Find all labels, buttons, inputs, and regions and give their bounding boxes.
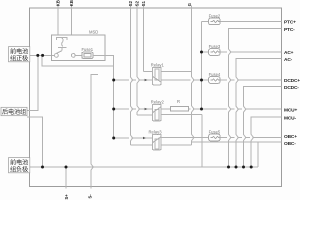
label: front battery pack positive: [9, 47, 30, 63]
svg-text:Relay3: Relay3: [149, 129, 163, 134]
enclosure box (BDU outline): [30, 8, 282, 186]
wire: relay2 aux rail y114.5: [137, 114, 152, 116]
label: front battery pack negative: [9, 158, 30, 174]
wire: sense tap at y66: [42, 55, 114, 66]
svg-text:前电池: 前电池: [10, 47, 28, 55]
node G line joining relay1 output drop: [191, 6, 193, 146]
fuse F2: [209, 18, 220, 25]
node K1 stub (top-left signal line 1): [57, 6, 59, 35]
wire: DCDC+ output after Fuse4: [220, 79, 282, 81]
wire: relay1 top rail from S1 line: [144, 71, 153, 73]
wire: OBC- riser and out: [192, 142, 282, 167]
MSD terminal circle left: [55, 54, 59, 58]
svg-text:Fuse2: Fuse2: [209, 14, 221, 19]
wire: positive distribution bus x201.5: [201, 21, 203, 109]
wire: DCDC- riser and out: [244, 87, 282, 167]
wire: bottom negative bus: [30, 166, 258, 168]
svg-text:DCDC+: DCDC+: [284, 78, 300, 84]
wire: resistor to bus and MCU+ out: [188, 108, 281, 110]
wire: precharge aux drop to bottom bus: [201, 115, 203, 168]
relay Relay2 precharge: [152, 104, 161, 121]
wire: OBC+ output after Fuse5: [220, 137, 282, 139]
MSD box U1: [52, 35, 105, 61]
wire: shunt sense line long: [91, 75, 98, 189]
wire: battery positive from label to MSD: [30, 54, 55, 56]
resistor R precharge: [170, 106, 188, 111]
svg-text:PTC+: PTC+: [284, 19, 296, 25]
svg-text:S1: S1: [141, 0, 146, 6]
node S1 control line to relay1: [143, 6, 145, 72]
wire: relay1 input rail DCDC+ feed y80: [114, 79, 209, 81]
svg-text:前电池: 前电池: [10, 158, 28, 166]
MSD switch blade symbol: [57, 37, 67, 40]
wire: rear pack positive riser: [27, 55, 38, 110]
wire: relay3 aux rail y144.9: [130, 144, 152, 146]
svg-text:Fuse1: Fuse1: [82, 47, 94, 52]
wire: MCU- riser and out: [251, 117, 281, 167]
relay Relay3 negative contactor: [152, 134, 161, 150]
wire: AC+ from bus through Fuse3: [202, 51, 282, 53]
svg-text:S2: S2: [128, 0, 133, 6]
svg-text:后电池组: 后电池组: [2, 108, 26, 116]
svg-text:Relay1: Relay1: [151, 62, 165, 67]
svg-text:MCU-: MCU-: [284, 115, 296, 121]
fuse F1 body: [82, 52, 93, 58]
wire: PTC+ from bus through Fuse2: [202, 20, 282, 22]
svg-text:Fuse3: Fuse3: [209, 44, 221, 49]
svg-text:KB: KB: [69, 0, 74, 6]
svg-text:OBC+: OBC+: [284, 134, 297, 140]
fuse F5: [209, 134, 220, 141]
wire: relay3 input rail OBC+ feed y137.5: [114, 137, 209, 140]
svg-text:PTC-: PTC-: [284, 27, 295, 33]
svg-text:KB: KB: [56, 0, 61, 6]
MSD terminal circle right: [71, 54, 75, 58]
label: rear battery pack: [1, 107, 27, 116]
svg-text:MSD: MSD: [89, 30, 98, 35]
svg-text:S+: S+: [64, 194, 69, 200]
svg-text:R: R: [177, 99, 180, 104]
node S2b control line to relay2: [136, 6, 138, 115]
wire: rear pack negative riser: [27, 117, 43, 167]
node S2 control line to relay3: [129, 6, 131, 145]
wire: PTC- riser and out: [229, 29, 282, 167]
wire: AC- riser and out: [236, 58, 282, 167]
svg-text:S-: S-: [88, 194, 93, 199]
svg-text:Fuse4: Fuse4: [209, 72, 221, 77]
svg-text:MCU+: MCU+: [284, 108, 297, 114]
wire: MSD internal to Fuse1: [75, 54, 82, 56]
svg-text:OBC-: OBC-: [284, 141, 296, 147]
svg-text:S2: S2: [135, 0, 140, 6]
relay Relay1 main contactor: [152, 67, 161, 85]
wire: Fuse1 output to main positive drop: [93, 55, 114, 80]
fuse F4: [209, 77, 220, 84]
fuse F3: [209, 49, 220, 56]
node K2 stub (top-left signal line 2): [71, 6, 73, 35]
svg-text:组负极: 组负极: [10, 165, 28, 173]
wire: relay2 input rail MCU+ feed y109: [114, 108, 171, 110]
svg-text:DCDC-: DCDC-: [284, 85, 299, 91]
svg-text:Relay2: Relay2: [151, 99, 165, 104]
arrows into relays: [143, 79, 147, 139]
svg-text:组正极: 组正极: [10, 54, 28, 62]
svg-text:AC+: AC+: [284, 50, 294, 56]
svg-text:Fuse5: Fuse5: [209, 130, 221, 135]
svg-text:AC-: AC-: [284, 57, 293, 63]
wire: shunt sense stub S-: [65, 167, 67, 189]
wire: main positive vertical battery bus: [113, 80, 115, 138]
svg-text:G: G: [187, 3, 192, 6]
